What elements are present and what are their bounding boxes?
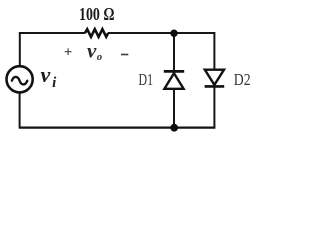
svg-text:vi: vi	[41, 62, 58, 91]
svg-text:D1: D1	[139, 70, 154, 89]
diode D2 (cathode down) triangle	[205, 70, 224, 85]
svg-text:vo: vo	[87, 39, 102, 64]
source V1 circle	[7, 66, 33, 92]
diode D1 cathode bar	[164, 70, 184, 73]
label minus sign	[121, 54, 128, 56]
wire: D1 bottom lead	[173, 89, 175, 128]
svg-text:D2: D2	[234, 70, 251, 89]
wire: top wire right segment + right vertical down to D2	[108, 33, 214, 71]
junction dot top	[170, 30, 177, 37]
resistor R 100ohm zigzag	[85, 29, 108, 37]
wire: bottom wire	[19, 126, 216, 128]
svg-text:100 Ω: 100 Ω	[79, 4, 115, 24]
diode D2 cathode bar	[205, 85, 225, 88]
wire: D1 top lead	[173, 33, 175, 72]
source sine symbol	[12, 77, 27, 85]
junction dot bottom	[170, 124, 178, 132]
diode D1 (cathode up) triangle	[164, 73, 183, 89]
wire: source bottom lead	[19, 92, 21, 128]
label plus sign	[65, 48, 72, 55]
wire: D2 bottom lead	[213, 86, 215, 128]
wire: left vertical + top wire left segment	[20, 33, 85, 67]
